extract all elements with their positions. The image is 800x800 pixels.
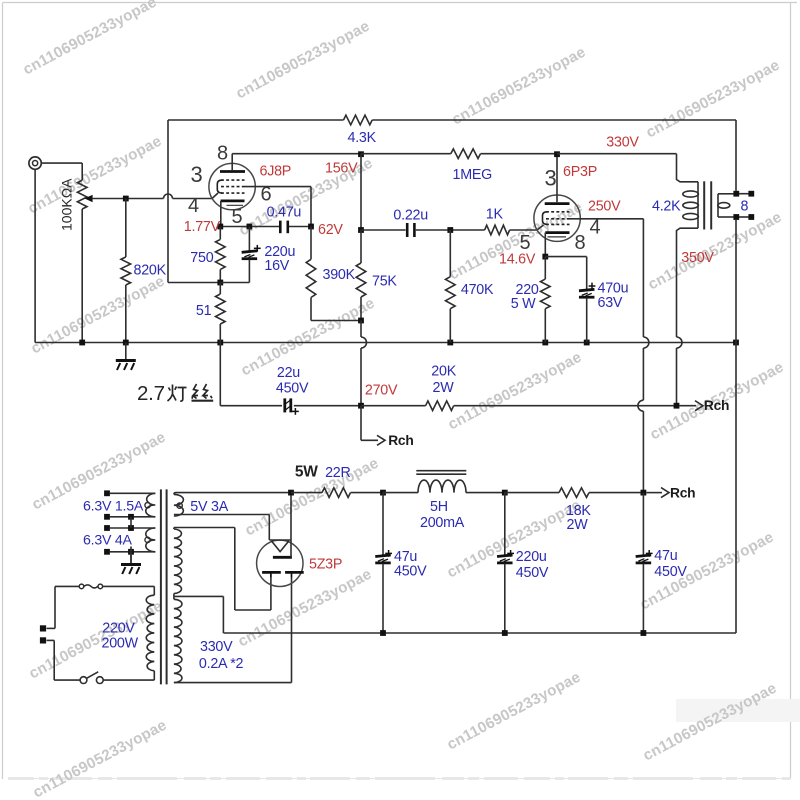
svg-text:8: 8 bbox=[741, 199, 749, 215]
node B+ takeoff bbox=[288, 490, 294, 496]
svg-text:75K: 75K bbox=[372, 274, 397, 290]
T1 primary winding 220V bbox=[146, 586, 154, 680]
svg-text:22u: 22u bbox=[277, 365, 300, 381]
svg-text:6.3V 4A: 6.3V 4A bbox=[83, 533, 133, 549]
svg-text:5W: 5W bbox=[295, 464, 318, 481]
resistor 20K 2W (B+ dropper) bbox=[361, 401, 677, 411]
svg-text:330V: 330V bbox=[200, 639, 233, 655]
svg-text:220u: 220u bbox=[516, 549, 547, 565]
wire secondary top to feedback corner bbox=[735, 120, 737, 191]
capacitor 470u 63V (cathode bypass) bbox=[545, 257, 594, 343]
6J8P plate (pin 8) bbox=[220, 154, 245, 172]
ground symbol (signal ground) bbox=[116, 343, 136, 371]
resistor 750 (cathode) bbox=[216, 227, 226, 283]
svg-text:200W: 200W bbox=[102, 636, 139, 652]
svg-text:1MEG: 1MEG bbox=[453, 167, 493, 183]
wire HV top to 5Z3P left plate bbox=[174, 528, 271, 611]
wire filament right to B+ node bbox=[290, 540, 292, 557]
5Z3P plates bbox=[262, 572, 304, 577]
svg-text:2W: 2W bbox=[567, 517, 589, 533]
resistor 1MEG (plate-to-plate feedback) bbox=[361, 149, 557, 159]
wire secondary bottom to ground bus bbox=[735, 220, 737, 343]
polarity + of 220u bbox=[254, 247, 261, 249]
node filter B bbox=[502, 490, 508, 496]
wire primary top lead bbox=[47, 586, 155, 628]
node 156V junction bbox=[358, 151, 364, 157]
5Z3P filament bbox=[269, 540, 291, 552]
svg-text:350V: 350V bbox=[681, 250, 714, 266]
svg-text:16V: 16V bbox=[264, 258, 289, 274]
tube V2 6P3P envelope bbox=[534, 195, 580, 241]
node filter A bbox=[380, 490, 386, 496]
ground symbol (heater) bbox=[121, 547, 141, 575]
fuse F1 bbox=[79, 584, 102, 589]
terminals 6.3V 1.5A bbox=[104, 490, 134, 519]
node 14.6V cathode junction bbox=[542, 254, 548, 260]
svg-text:4.2K: 4.2K bbox=[652, 199, 681, 215]
svg-text:1K: 1K bbox=[486, 207, 504, 223]
svg-text:450V: 450V bbox=[394, 564, 427, 580]
node 220u tap bbox=[247, 224, 253, 230]
T1 HV winding 330V 0.2A x2 bbox=[174, 528, 182, 683]
svg-text:100KΩA: 100KΩA bbox=[59, 178, 75, 231]
node 470K/1K junction bbox=[447, 227, 453, 233]
input jack J1 bbox=[29, 157, 41, 169]
6P3P plate (pin 3) bbox=[545, 154, 570, 203]
terminals 6.3V 4A bbox=[104, 525, 134, 555]
polarity + of 47u bbox=[385, 552, 392, 554]
wire 6P3P screen pin 4 to 250V supply (hops ground bus and 270V rail) bbox=[570, 219, 649, 493]
AC input terminal upper bbox=[40, 625, 46, 631]
wire feedback loop top bbox=[168, 119, 736, 121]
capacitor 220u 450V bbox=[497, 493, 513, 633]
wire ground bus bbox=[82, 342, 736, 344]
svg-text:14.6V: 14.6V bbox=[499, 252, 536, 268]
svg-text:3: 3 bbox=[191, 162, 203, 187]
svg-text:51: 51 bbox=[196, 303, 212, 319]
transformer T2 core bbox=[704, 181, 711, 229]
svg-text:330V: 330V bbox=[606, 135, 639, 151]
wire pot wiper to 6J8P grid pin 4 bbox=[93, 193, 218, 199]
svg-text:0.22u: 0.22u bbox=[393, 208, 428, 224]
node filter C 250V bbox=[641, 490, 647, 496]
wire OPT primary bottom 350V down to 20K node (hops ground bus) bbox=[677, 232, 683, 406]
6J8P cathode bbox=[221, 201, 245, 227]
arrow Rch (270V to right channel) bbox=[361, 406, 385, 446]
capacitor 220u 16V (cathode bypass) bbox=[220, 227, 257, 283]
wire cathode node 1.77V row bbox=[221, 226, 311, 228]
transformer T1 power core bbox=[161, 489, 167, 684]
polarity + of 470u bbox=[589, 285, 596, 287]
resistor 220 5W (cathode) bbox=[541, 257, 551, 343]
svg-text:450V: 450V bbox=[516, 565, 549, 581]
svg-text:6J8P: 6J8P bbox=[260, 164, 292, 180]
6P3P cathode bbox=[545, 233, 569, 257]
svg-text:47u: 47u bbox=[654, 548, 677, 564]
resistor R 4.3K (feedback) bbox=[344, 115, 373, 125]
wire 6J8P screen pin 6 to 62V node bbox=[245, 187, 312, 227]
wire 6.3V 4A to ground bbox=[130, 552, 132, 564]
svg-text:8: 8 bbox=[575, 232, 586, 254]
svg-text:4.3K: 4.3K bbox=[348, 130, 377, 146]
polarity + of 220u (PSU) bbox=[507, 552, 514, 554]
wire 1.5A bottom to 4A top bbox=[130, 517, 132, 528]
resistor 390K (screen dropper) bbox=[306, 227, 361, 321]
svg-text:0.2A *2: 0.2A *2 bbox=[199, 656, 244, 672]
svg-text:1.77V: 1.77V bbox=[184, 219, 221, 235]
svg-text:5 W: 5 W bbox=[511, 296, 536, 312]
svg-text:2.7: 2.7 bbox=[137, 382, 165, 405]
svg-text:470K: 470K bbox=[461, 282, 494, 298]
6P3P grids (dashed) bbox=[543, 212, 570, 225]
svg-text:Rch: Rch bbox=[704, 398, 729, 413]
capacitor 0.47u bbox=[280, 221, 288, 234]
wire primary bottom lead bbox=[47, 640, 155, 680]
svg-text:5: 5 bbox=[232, 206, 243, 228]
node 350V junction with 20K row bbox=[674, 403, 680, 409]
svg-text:5H: 5H bbox=[430, 499, 448, 515]
junction dots bottom rail bbox=[380, 630, 646, 636]
svg-text:6P3P: 6P3P bbox=[563, 164, 597, 180]
wire PSU negative bottom rail bbox=[223, 343, 736, 634]
svg-text:22R: 22R bbox=[325, 465, 350, 481]
junction dots on ground bus bbox=[79, 340, 739, 346]
svg-text:Rch: Rch bbox=[388, 433, 413, 448]
node 62V bbox=[308, 224, 314, 230]
svg-text:3: 3 bbox=[545, 166, 557, 191]
potentiometer RV1 100KΩA bbox=[77, 180, 92, 342]
svg-text:20K: 20K bbox=[431, 364, 456, 380]
svg-text:250V: 250V bbox=[588, 199, 621, 215]
svg-text:156V: 156V bbox=[325, 161, 358, 177]
transformer T2 output primary winding bbox=[677, 182, 699, 232]
svg-text:8: 8 bbox=[217, 143, 228, 165]
wire feedback left leg to cathode junction bbox=[168, 120, 220, 283]
capacitor 47u 450V (second) bbox=[636, 493, 652, 633]
arrow Rch (filter output) bbox=[646, 492, 662, 494]
svg-text:62V: 62V bbox=[318, 222, 343, 238]
svg-text:4: 4 bbox=[590, 217, 601, 239]
6J8P grids (dashed) bbox=[217, 180, 244, 193]
svg-text:390K: 390K bbox=[323, 267, 356, 283]
T1 winding 6.3V 1.5A bbox=[110, 493, 156, 517]
svg-text:5Z3P: 5Z3P bbox=[309, 557, 342, 573]
svg-text:200mA: 200mA bbox=[420, 515, 465, 531]
wire HV bottom to 5Z3P right plate bbox=[174, 578, 292, 683]
svg-text:0.47u: 0.47u bbox=[267, 205, 302, 221]
wire jack sleeve to ground bus bbox=[35, 169, 82, 342]
wire 156V node down to coupling tap bbox=[360, 154, 362, 230]
resistor 22R 5W bbox=[291, 488, 383, 498]
svg-text:450V: 450V bbox=[276, 381, 309, 397]
svg-text:220V: 220V bbox=[102, 621, 135, 637]
polarity + of 47u second bbox=[646, 552, 653, 554]
node cathode 1.77V bbox=[217, 224, 223, 230]
node 270V bbox=[358, 403, 364, 409]
switch S1 bbox=[80, 672, 103, 684]
wire jack to volume pot bbox=[41, 163, 82, 180]
resistor 820K bbox=[121, 199, 131, 343]
output terminals bbox=[733, 191, 754, 220]
svg-text:4: 4 bbox=[188, 195, 199, 217]
node 330V plate junction bbox=[554, 151, 560, 157]
svg-text:Rch: Rch bbox=[670, 486, 695, 501]
label 100KΩA bbox=[59, 178, 75, 231]
svg-text:820K: 820K bbox=[134, 263, 167, 279]
T1 winding 6.3V 4A bbox=[110, 528, 156, 552]
tube V1 6J8P envelope bbox=[209, 163, 255, 209]
AC input terminal lower bbox=[40, 637, 46, 643]
capacitor 47u 450V (first) bbox=[375, 493, 391, 633]
wire junction down to 270V rail (hops ground bus) bbox=[361, 321, 367, 406]
wire HV center tap to bottom rail bbox=[174, 596, 224, 633]
resistor 75K (plate load) bbox=[356, 230, 366, 321]
T1 winding 5V 3A bbox=[174, 493, 291, 516]
wire 5V bottom lead to filament left bbox=[268, 515, 270, 541]
wire coupling row bbox=[361, 225, 544, 230]
svg-text:270V: 270V bbox=[365, 383, 398, 399]
arrow Rch (350V row) bbox=[679, 405, 696, 407]
node wiper/820K junction bbox=[123, 196, 129, 202]
5Z3P cathode bar bbox=[273, 556, 292, 559]
tube V3 5Z3P envelope bbox=[257, 540, 303, 586]
wire 22u to 270V node bbox=[294, 405, 361, 407]
resistor 470K (grid leak) bbox=[446, 230, 456, 343]
wire 6J8P plate to 156V node bbox=[232, 153, 361, 155]
resistor 1K (grid stopper) bbox=[485, 225, 510, 235]
resistor 51 bbox=[216, 283, 226, 343]
capacitor 0.22u (coupling) bbox=[407, 223, 414, 237]
node coupling tap bbox=[358, 227, 364, 233]
capacitor 22u 450V bbox=[285, 398, 291, 412]
resistor 18K 2W bbox=[505, 488, 644, 498]
node 390K/75K junction bbox=[358, 318, 364, 324]
svg-text:63V: 63V bbox=[598, 295, 623, 311]
wire 330V to output transformer primary top bbox=[557, 154, 698, 182]
svg-text:6.3V 1.5A: 6.3V 1.5A bbox=[83, 499, 144, 515]
polarity + of 22u bbox=[292, 410, 299, 412]
svg-text:750: 750 bbox=[190, 250, 213, 266]
node 750/51 junction bbox=[217, 280, 223, 286]
transformer T2 secondary winding bbox=[718, 194, 734, 217]
svg-text:5V 3A: 5V 3A bbox=[190, 499, 228, 515]
svg-text:450V: 450V bbox=[654, 564, 687, 580]
svg-text:2W: 2W bbox=[433, 380, 455, 396]
wire 51/cathode ground leg down to 22u (left end of 270V row) bbox=[220, 343, 282, 406]
choke 5H 200mA bbox=[383, 471, 505, 493]
